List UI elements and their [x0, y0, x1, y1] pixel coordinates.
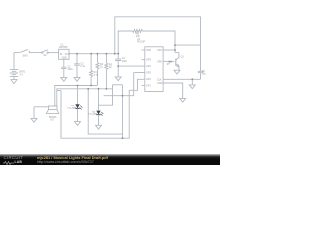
- svg-text:0.1u: 0.1u: [80, 65, 85, 68]
- svg-text:VDD: VDD: [146, 49, 151, 52]
- svg-text:OUT: OUT: [65, 53, 71, 56]
- svg-text:SW1: SW1: [23, 54, 29, 57]
- svg-text:GND: GND: [62, 57, 68, 60]
- svg-text:LM7805: LM7805: [59, 46, 68, 49]
- svg-text:GP0: GP0: [157, 60, 162, 63]
- svg-text:CLK: CLK: [157, 78, 162, 81]
- svg-text:R7: R7: [167, 63, 171, 66]
- svg-text:GND: GND: [157, 82, 163, 85]
- svg-text:S2: S2: [44, 54, 48, 57]
- svg-text:LTL-4234: LTL-4234: [89, 114, 99, 116]
- svg-text:8 O: 8 O: [50, 118, 54, 121]
- svg-text:1k: 1k: [109, 66, 112, 69]
- svg-text:IN: IN: [60, 53, 63, 56]
- svg-text:PIC16F: PIC16F: [137, 41, 146, 44]
- svg-text:GP3: GP3: [146, 72, 151, 75]
- svg-text:100n: 100n: [122, 60, 128, 63]
- svg-text:100u: 100u: [67, 68, 73, 71]
- svg-text:GP4: GP4: [146, 65, 151, 68]
- svg-text:10u: 10u: [202, 72, 207, 75]
- svg-text:LTL-4234: LTL-4234: [68, 107, 78, 109]
- svg-text:GP5: GP5: [146, 59, 151, 62]
- svg-text:Q1: Q1: [181, 56, 185, 59]
- svg-text:1k: 1k: [100, 66, 103, 69]
- svg-text:GP1: GP1: [146, 84, 151, 87]
- svg-text:4.7k: 4.7k: [94, 74, 99, 77]
- svg-text:VSS: VSS: [157, 49, 162, 52]
- svg-text:3 V: 3 V: [20, 73, 24, 76]
- svg-text:GP2: GP2: [146, 78, 151, 81]
